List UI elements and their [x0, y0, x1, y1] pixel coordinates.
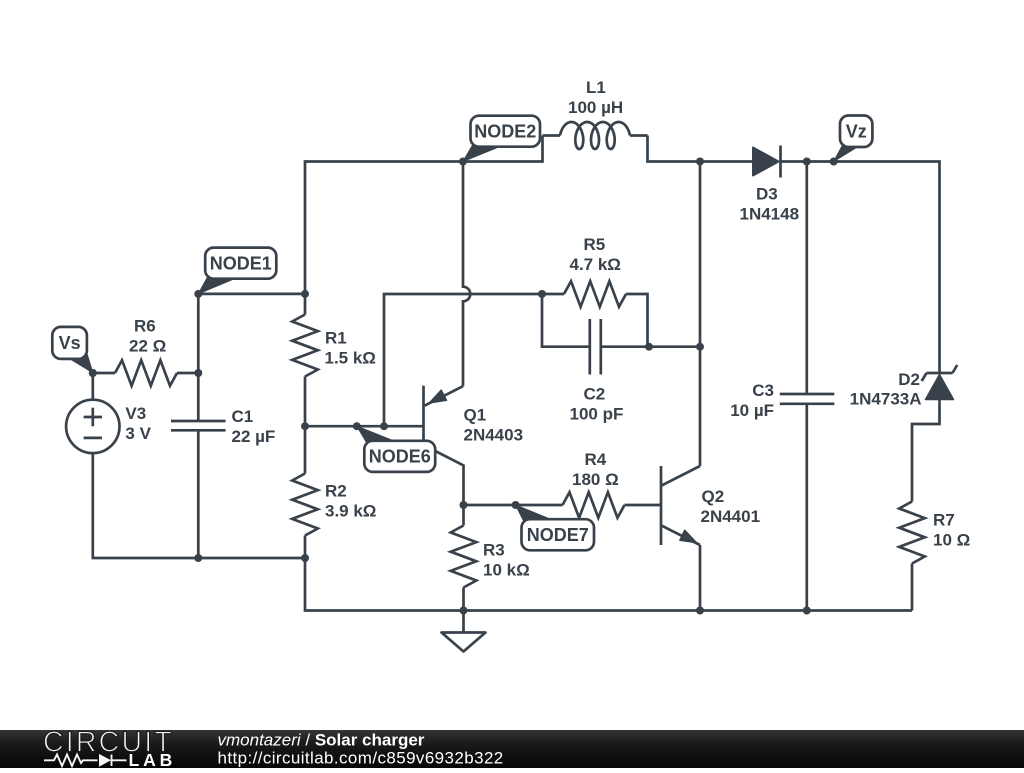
wire C2 right plate to Q2 collector column — [601, 345, 700, 348]
wire R2 bottom jog to ground rail — [305, 558, 464, 611]
svg-text:10 Ω: 10 Ω — [933, 531, 970, 550]
junction NODE1 — [194, 290, 202, 298]
svg-text:100 pF: 100 pF — [570, 405, 624, 424]
wire V3 bottom lead to bottom-left rail — [93, 453, 305, 558]
svg-text:1N4148: 1N4148 — [740, 205, 800, 224]
svg-text:22 µF: 22 µF — [232, 427, 276, 446]
wire NODE1 horizontal — [198, 293, 305, 296]
wire C3 column lower — [805, 404, 808, 611]
svg-text:100 µH: 100 µH — [568, 98, 623, 117]
svg-text:1N4733A: 1N4733A — [850, 390, 922, 409]
svg-text:NODE2: NODE2 — [474, 121, 536, 141]
resistor R4 180 Ohm — [563, 450, 625, 518]
junction NODE2 — [459, 158, 467, 166]
footer bar — [0, 730, 1024, 768]
svg-text:R4: R4 — [585, 450, 607, 469]
svg-text:R1: R1 — [325, 329, 347, 348]
svg-text:Vz: Vz — [846, 121, 867, 141]
svg-text:LAB: LAB — [129, 750, 177, 768]
junction D3/C3 — [803, 158, 811, 166]
resistor R5 4.7k — [542, 235, 626, 307]
junction R1 top — [301, 290, 309, 298]
wire R5 right lead down-jog to C2 wire — [626, 294, 648, 347]
wire D2 bottom jog to R7 — [912, 400, 940, 502]
svg-text:R6: R6 — [134, 317, 156, 336]
wire C1 column upper — [197, 294, 200, 373]
resistor R3 10k — [451, 505, 530, 611]
svg-text:V3: V3 — [125, 404, 146, 423]
junction C1 bottom — [194, 554, 202, 562]
wire inductor right lead down to rail and right to Q2 collector column — [648, 136, 701, 162]
diode D3 1N4148 — [740, 146, 800, 224]
resistor R2 3.9k — [292, 426, 376, 558]
CircuitLab logo resistor-diode symbol — [44, 755, 127, 767]
junction NODE7 left — [460, 501, 468, 509]
zener diode D2 1N4733A — [850, 365, 958, 409]
svg-text:R7: R7 — [933, 511, 955, 530]
svg-text:NODE7: NODE7 — [527, 525, 589, 545]
node Vz anchor dot — [830, 158, 838, 166]
wire Q2 emitter to bottom rail — [699, 545, 702, 611]
svg-text:D3: D3 — [756, 185, 778, 204]
node Vs label — [68, 352, 93, 373]
voltage source V3 3V — [66, 400, 151, 453]
wire R7 bottom lead — [911, 564, 914, 611]
svg-text:http://circuitlab.com/c859v693: http://circuitlab.com/c859v6932b322 — [218, 749, 504, 768]
transistor Q1 2N4403 PNP — [424, 386, 524, 505]
svg-text:L1: L1 — [586, 78, 606, 97]
svg-text:R3: R3 — [483, 541, 505, 560]
svg-text:2N4401: 2N4401 — [701, 507, 761, 526]
junction NODE7 anchor — [512, 501, 520, 509]
wire top rail from upper-left corner to inductor — [305, 136, 543, 295]
junction R5 left — [538, 290, 546, 298]
resistor R1 1.5k — [292, 294, 376, 426]
svg-text:3 V: 3 V — [125, 424, 151, 443]
junction R6/C1 — [194, 369, 202, 377]
transistor Q2 2N4401 NPN — [661, 466, 760, 545]
wire bottom rail ground to Q2 emitter to C3 to R7 — [464, 609, 913, 612]
junction collector column mid — [696, 343, 704, 351]
resistor R6 22 Ohm — [93, 317, 199, 386]
svg-text:22 Ω: 22 Ω — [129, 337, 166, 356]
wire R4 right lead to Q2 base — [625, 504, 662, 507]
node NODE6 label — [357, 426, 394, 442]
junction R2 bottom — [301, 554, 309, 562]
svg-text:10 µF: 10 µF — [730, 401, 774, 420]
svg-text:Q2: Q2 — [702, 487, 725, 506]
svg-text:2N4403: 2N4403 — [464, 426, 524, 445]
svg-text:C2: C2 — [584, 385, 606, 404]
node Vz label — [834, 146, 858, 162]
svg-text:D2: D2 — [898, 370, 920, 389]
wire Q1 base from R1/R2 junction — [305, 425, 424, 428]
wire top rail from L1/D3 junction to D3 anode — [700, 160, 753, 163]
wire Q2 collector column upper — [699, 162, 702, 347]
junction Vs/V3/R6 — [89, 369, 97, 377]
svg-text:R2: R2 — [325, 482, 347, 501]
wire Q2 collector column — [699, 347, 702, 466]
junction base column — [380, 422, 388, 430]
svg-text:180 Ω: 180 Ω — [572, 470, 619, 489]
svg-text:C1: C1 — [232, 407, 254, 426]
junction R1/R2/Q1 base — [301, 422, 309, 430]
capacitor C2 100pF — [570, 319, 624, 424]
ground — [462, 611, 465, 633]
node NODE2 label — [463, 145, 500, 161]
wire Vs junction to V3 and R6 — [91, 373, 94, 400]
svg-text:4.7 kΩ: 4.7 kΩ — [570, 255, 621, 274]
svg-text:vmontazeri / Solar charger: vmontazeri / Solar charger — [218, 731, 425, 750]
svg-text:1.5 kΩ: 1.5 kΩ — [325, 349, 376, 368]
svg-text:C3: C3 — [752, 381, 774, 400]
node NODE1 label — [198, 277, 234, 294]
resistor R7 10 Ohm — [899, 502, 970, 564]
inductor L1 100uH — [543, 78, 648, 149]
node Vs anchor dot — [89, 369, 97, 377]
wire NODE7 horizontal Q1 collector to R4 — [464, 504, 563, 507]
node NODE7 label — [516, 505, 551, 521]
wire NODE6 column vertical and hop wire to R5 — [384, 294, 542, 426]
junction ground — [460, 607, 468, 615]
wire top rail D3 cathode to right corner down to D2 — [781, 162, 940, 373]
svg-text:10 kΩ: 10 kΩ — [483, 561, 530, 580]
svg-text:3.9 kΩ: 3.9 kΩ — [325, 502, 376, 521]
svg-text:R5: R5 — [584, 235, 606, 254]
wire C3 column upper — [805, 162, 808, 395]
svg-text:NODE1: NODE1 — [210, 253, 272, 273]
capacitor C1 22uF — [171, 373, 275, 558]
svg-text:NODE6: NODE6 — [369, 447, 431, 467]
wire NODE2 column with hop over base wire — [463, 162, 470, 387]
junction C3 bottom — [803, 607, 811, 615]
wire R5 left terminal down-jog — [542, 294, 590, 347]
junction L1/D3 — [696, 158, 704, 166]
svg-text:Vs: Vs — [59, 333, 81, 353]
capacitor C3 10uF — [730, 381, 834, 420]
junction Q2 emitter bottom — [696, 607, 704, 615]
junction R5/C2 right — [645, 343, 653, 351]
svg-text:Q1: Q1 — [464, 406, 487, 425]
junction NODE6 anchor — [353, 422, 361, 430]
